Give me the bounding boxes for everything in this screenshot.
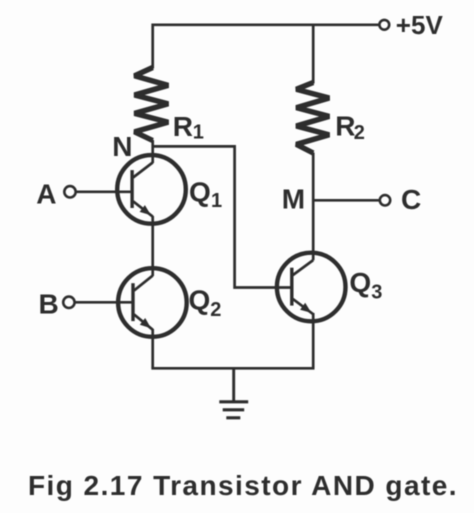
output C terminal circle xyxy=(380,195,390,205)
svg-text:Q: Q xyxy=(189,177,211,208)
svg-text:M: M xyxy=(282,184,305,215)
Q2 label xyxy=(189,284,222,321)
wire left branch from rail to R1 xyxy=(151,24,154,69)
wire A to Q1 base xyxy=(76,190,132,193)
svg-text:Q: Q xyxy=(189,284,211,315)
wire node M to output C xyxy=(313,199,380,202)
input B terminal circle xyxy=(63,297,74,308)
resistor R2 xyxy=(296,83,329,154)
ground xyxy=(219,368,248,418)
wire Q2 emitter to ground rail xyxy=(151,329,154,368)
svg-text:A: A xyxy=(36,179,56,210)
R2 value label xyxy=(335,111,365,144)
wire B to Q2 base xyxy=(75,301,133,304)
svg-text:B: B xyxy=(39,288,59,319)
R1 value label xyxy=(173,111,204,144)
transistor Q2 xyxy=(118,268,187,337)
wire R2 to Q3 collector through node M xyxy=(312,153,315,261)
transistor Q3 xyxy=(277,253,346,322)
wire top +5V rail xyxy=(153,23,380,26)
svg-text:2: 2 xyxy=(354,122,365,144)
svg-text:R: R xyxy=(173,111,193,142)
input A terminal circle xyxy=(64,186,75,197)
svg-text:N: N xyxy=(112,131,132,162)
resistor R1 xyxy=(135,68,169,141)
svg-text:1: 1 xyxy=(211,190,222,212)
svg-text:+5V: +5V xyxy=(396,10,444,40)
svg-text:1: 1 xyxy=(193,122,204,144)
Q3 label xyxy=(349,267,382,304)
wire node N to Q3 base xyxy=(153,146,293,287)
svg-text:Q: Q xyxy=(349,267,371,298)
wire Q3 emitter to ground rail xyxy=(312,313,315,368)
svg-text:C: C xyxy=(401,184,421,215)
wire bottom ground rail xyxy=(151,367,314,370)
svg-text:3: 3 xyxy=(371,282,382,304)
svg-text:R: R xyxy=(335,111,355,142)
wire right branch from rail to R2 xyxy=(312,24,315,84)
wire Q1 emitter to Q2 collector xyxy=(151,216,154,276)
Q1 label xyxy=(189,177,222,213)
svg-text:2: 2 xyxy=(210,299,221,321)
wire R1 to node N / Q1 collector xyxy=(151,140,154,163)
svg-text:Fig 2.17 Transistor AND gate.: Fig 2.17 Transistor AND gate. xyxy=(28,470,458,501)
+5V terminal circle xyxy=(379,20,389,30)
transistor Q1 xyxy=(117,155,186,224)
